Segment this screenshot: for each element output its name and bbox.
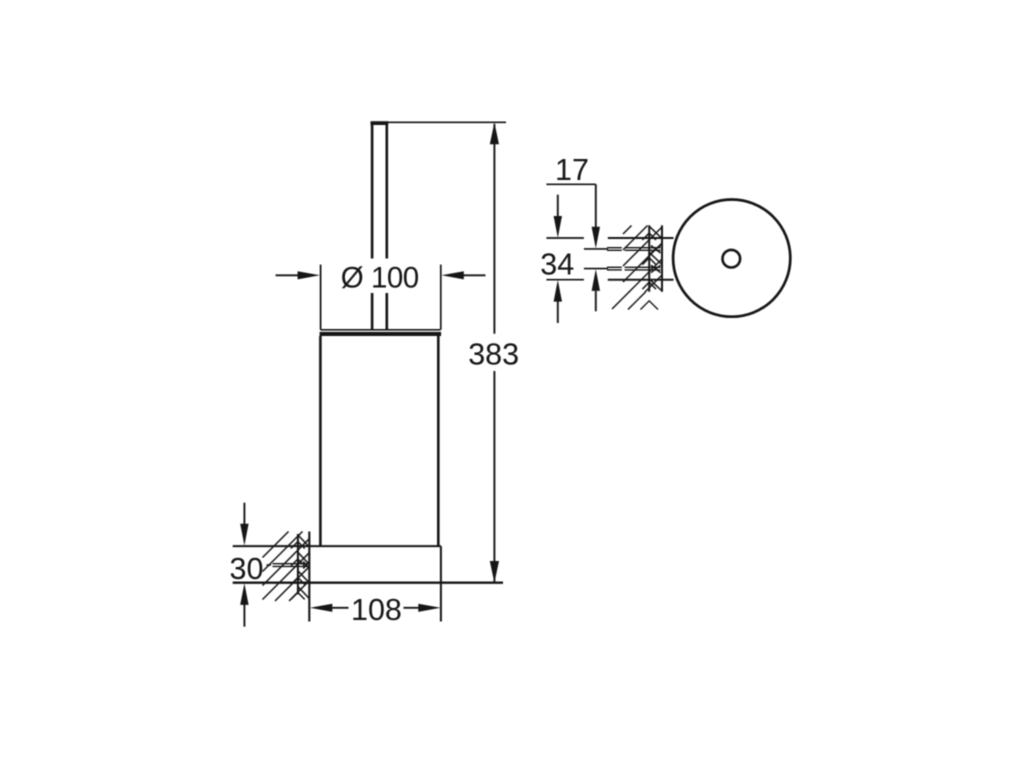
108 dim line left tail [331, 607, 349, 609]
lower screw center extension line [584, 268, 608, 270]
brush handle right line lower segment [385, 293, 388, 330]
mount arm top edge [608, 237, 674, 239]
right view wall surface line [661, 225, 663, 291]
wall surface line / base left edge / 108 left extension [308, 532, 310, 622]
383 dimension line lower segment [493, 371, 495, 582]
lower screw shaft bottom line seg1 [607, 269, 622, 271]
brush handle left line upper segment [371, 122, 374, 259]
lower screw cross stroke 1 [651, 265, 661, 273]
383 bottom arrowhead [490, 561, 499, 583]
upper screw shaft bottom line seg1 [607, 249, 622, 251]
lower screw cross stroke 2 [651, 265, 661, 273]
30 top arrowhead [240, 524, 248, 546]
30 top arrow shaft [243, 503, 245, 527]
dia-100 right arrow tail [461, 274, 486, 276]
dia-100 right extension line [440, 265, 442, 330]
svg-text:383: 383 [468, 337, 519, 371]
30 bottom arrowhead [240, 583, 248, 605]
dia-100 left arrowhead [298, 271, 320, 279]
17 upper arrow shaft [595, 184, 597, 229]
right view wall hatching [612, 226, 662, 310]
dia-100 left extension line [320, 265, 322, 330]
svg-text:Ø 100: Ø 100 [341, 262, 419, 295]
upper screw shaft bottom line seg2 [625, 249, 661, 251]
34 top extension line [546, 237, 584, 239]
brush handle right line upper segment [385, 122, 388, 259]
30 bottom arrow shaft [243, 601, 245, 627]
brush handle left line lower segment [371, 293, 374, 330]
left view screw shaft bottom line [273, 565, 310, 567]
383 top extension line [388, 121, 506, 123]
left view screw shaft top line [273, 563, 310, 565]
108 dim line right tail [404, 607, 422, 609]
17 upper arrowhead [592, 227, 600, 249]
container body right edge [437, 336, 440, 546]
right view anchor dowel line [648, 225, 650, 291]
17 lower arrowhead [592, 269, 600, 291]
holder outer circle [673, 200, 790, 317]
383 top arrowhead [490, 122, 499, 144]
34 bottom arrowhead [554, 280, 562, 302]
mount arm bottom edge [608, 279, 674, 281]
brush handle top cap [371, 121, 389, 125]
left view screw anchor cross stroke 1 [303, 562, 309, 569]
lower screw shaft top line seg2 [625, 266, 661, 268]
holder inner circle [723, 250, 741, 268]
svg-text:108: 108 [351, 593, 402, 627]
lower screw shaft bottom line seg2 [625, 269, 661, 271]
dia-100 right arrowhead [442, 271, 464, 279]
base right edge + 108 right extension [440, 546, 442, 621]
container body left edge [319, 336, 322, 546]
left view screw centerline dash [267, 564, 272, 566]
108 right arrowhead [418, 604, 440, 612]
svg-text:30: 30 [230, 552, 264, 586]
34 bottom arrow shaft [557, 301, 559, 323]
left view anchor dowel line [297, 534, 299, 594]
upper screw cross stroke 1 [651, 246, 661, 254]
upper screw shaft top line seg1 [607, 247, 622, 249]
svg-text:34: 34 [540, 248, 574, 282]
container lid top line [321, 329, 441, 331]
dia-100 left arrow tail [276, 274, 301, 276]
base top edge + 30-dim top extension [233, 545, 441, 547]
34 top arrowhead [554, 216, 562, 238]
container lid thick band [320, 332, 442, 336]
34 bottom extension line [546, 279, 584, 281]
383 dimension line upper segment [493, 124, 495, 334]
upper screw center extension line [584, 248, 608, 250]
left view screw anchor cross stroke 2 [303, 562, 309, 569]
left view anchor chevrons [291, 535, 309, 600]
108 left arrowhead [310, 604, 332, 612]
lower screw shaft top line seg1 [607, 266, 622, 268]
upper screw shaft top line seg2 [625, 247, 661, 249]
17 leader underline [546, 183, 595, 185]
upper screw cross stroke 2 [651, 246, 661, 254]
right view anchor chevrons [641, 226, 663, 309]
svg-text:17: 17 [555, 153, 589, 187]
17 lower arrow shaft [595, 291, 597, 311]
base bottom edge + extensions [233, 582, 503, 584]
34 top arrow shaft [557, 195, 559, 219]
left view wall hatching [263, 532, 310, 602]
